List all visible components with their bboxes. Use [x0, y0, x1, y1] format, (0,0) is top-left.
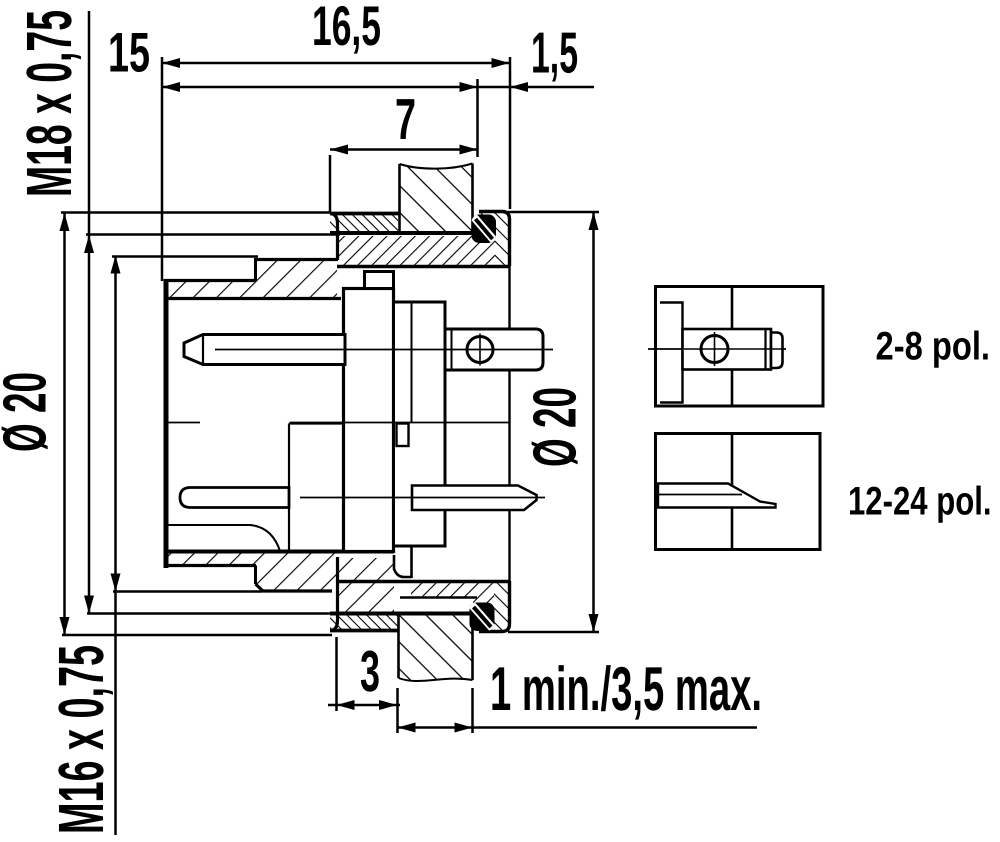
barrel bore top line	[164, 297, 341, 300]
solder hole	[467, 337, 493, 363]
back nut bottom face	[479, 581, 510, 632]
svg-text:Ø 20: Ø 20	[521, 387, 589, 467]
svg-text:7: 7	[395, 87, 416, 152]
dimension line M18 x 0,75	[88, 11, 91, 614]
back nut hatching (top)	[495, 213, 509, 266]
back nut hatching (bottom)	[494, 583, 509, 630]
extension line flange front (left end 15/16,5)	[161, 57, 164, 281]
extension line flange top	[61, 211, 330, 214]
key bump on insulator disc	[365, 272, 394, 289]
dimension line 1 min./3,5 max. with leader	[398, 726, 758, 729]
dimension line 7	[330, 148, 478, 151]
back solder blade (bottom)	[412, 486, 537, 511]
extension line panel front face	[476, 79, 479, 157]
dimension line 16,5	[162, 62, 510, 65]
body band hatching (bottom right)	[411, 583, 494, 597]
lock washer (bottom)	[470, 603, 495, 632]
barrel step down to thread (bottom)	[254, 566, 257, 585]
arrowheads M16	[111, 256, 121, 274]
extension line left end of 7	[329, 155, 332, 212]
rear housing face	[508, 266, 510, 581]
barrel bottom wall hatching	[165, 553, 337, 590]
insert channel hook (bottom)	[394, 555, 412, 577]
svg-text:Ø 20: Ø 20	[0, 372, 59, 452]
extension line panel back bottom	[471, 688, 474, 733]
extension line panel front bottom	[396, 688, 399, 733]
flange bottom edge	[330, 629, 399, 633]
barrel top wall hatching	[165, 261, 337, 297]
arrowheads diameter 20 right	[589, 212, 599, 230]
inner cavity step lines	[288, 424, 290, 488]
back solder contact with hole (top)	[445, 329, 543, 370]
flange front face with rounded nub (bottom)	[330, 557, 338, 631]
lock washer (top)	[472, 215, 497, 244]
arrowheads 1 min./3,5 max.	[398, 723, 416, 733]
centerline bottom contact row	[300, 497, 545, 499]
flange front face with rounded nub (top)	[330, 214, 338, 261]
extension line M16 crest bottom	[113, 590, 262, 593]
svg-text:15: 15	[108, 21, 150, 84]
extension line rear housing bottom	[508, 631, 599, 634]
bore inner step with fillet (bottom left)	[168, 525, 280, 551]
svg-text:M16 x 0,75: M16 x 0,75	[45, 645, 117, 834]
extension line M18 crest bottom	[87, 612, 332, 615]
svg-text:1,5: 1,5	[531, 21, 578, 86]
arrowheads 16,5	[162, 58, 180, 68]
extension line rear housing top	[508, 211, 599, 214]
barrel bore bottom line	[164, 550, 394, 554]
barrel front face	[164, 279, 169, 568]
flange top edge	[330, 212, 399, 216]
arrowhead 1,5	[510, 82, 528, 92]
thread crest line M16 (bottom)	[256, 584, 333, 591]
thread crest line M16 (top)	[254, 258, 338, 261]
body band top edge (bottom side)	[337, 580, 510, 583]
svg-text:16,5: 16,5	[312, 0, 381, 57]
body band hatching (top)	[338, 236, 495, 266]
arrowheads M18	[84, 235, 94, 253]
svg-text:12-24 pol.: 12-24 pol.	[848, 480, 992, 524]
arrowheads 15	[162, 82, 180, 92]
front pin contact (top)	[184, 335, 345, 365]
mounting panel (bottom cross-section, break line)	[399, 614, 473, 682]
detail box 2-8 pol	[648, 287, 823, 407]
M18 thread root line (bottom)	[400, 596, 477, 599]
barrel step up to thread (top)	[254, 260, 257, 281]
M18 thread crest / panel seat line (top)	[330, 231, 474, 235]
mounting panel (top cross-section, break line)	[400, 164, 473, 232]
flange top rim hatching (dense)	[330, 215, 398, 232]
extension line panel back face	[509, 57, 512, 209]
barrel outer bottom edge	[164, 564, 256, 567]
centerline top contact row	[215, 349, 553, 351]
body band hatching (bottom left)	[338, 558, 394, 612]
insulator disc	[344, 289, 394, 552]
arrowheads 3	[337, 700, 355, 710]
barrel outer top edge	[164, 279, 256, 282]
dimension line diameter 20 (left)	[63, 213, 66, 635]
body band bottom edge (top side)	[337, 265, 510, 268]
extension line M18 crest top	[86, 233, 340, 236]
extension line flange bottom	[62, 634, 332, 637]
front socket contact tube (bottom)	[180, 488, 289, 508]
svg-text:3: 3	[360, 639, 380, 704]
back nut top face	[479, 212, 510, 267]
dimension line diameter 20 (right)	[592, 212, 595, 632]
dimension line 3	[328, 704, 400, 707]
extension line M16 crest top	[112, 255, 258, 258]
svg-text:2-8 pol.: 2-8 pol.	[876, 325, 991, 369]
svg-text:1 min./3,5 max.: 1 min./3,5 max.	[490, 655, 762, 724]
arrowheads diameter 20 left	[60, 213, 70, 231]
dimension line 15 / 1,5	[162, 86, 594, 89]
detail box 12-24 pol	[656, 434, 821, 550]
slot in carrier	[397, 424, 409, 447]
main axis centerline	[168, 422, 200, 424]
svg-text:M18 x 0,75: M18 x 0,75	[13, 10, 85, 197]
dimension line M16 x 0,75	[114, 256, 117, 836]
contact carrier block	[394, 302, 446, 546]
flange bottom rim hatching (dense)	[330, 615, 398, 630]
arrowheads 7	[330, 145, 348, 155]
extension line flange front bottom	[335, 637, 338, 711]
M18 thread crest / panel seat line (bottom)	[330, 612, 474, 616]
